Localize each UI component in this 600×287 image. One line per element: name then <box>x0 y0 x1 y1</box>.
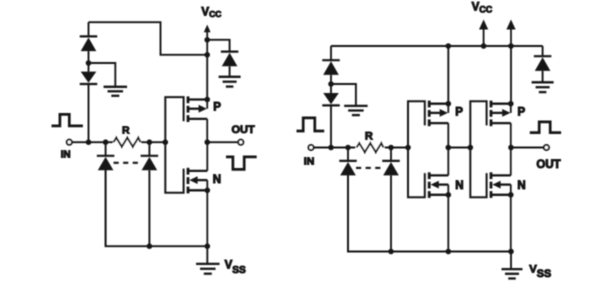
svg-text:OUT: OUT <box>536 159 560 171</box>
svg-text:R: R <box>365 131 373 143</box>
svg-text:IN: IN <box>304 155 315 167</box>
svg-text:P: P <box>518 107 526 119</box>
svg-text:N: N <box>213 174 221 186</box>
svg-text:OUT: OUT <box>232 124 256 136</box>
svg-text:SS: SS <box>537 268 551 280</box>
svg-text:VCC: VCC <box>201 7 221 19</box>
svg-text:P: P <box>455 107 463 119</box>
svg-text:N: N <box>517 180 525 192</box>
svg-text:IN: IN <box>61 149 71 160</box>
svg-text:P: P <box>213 101 221 113</box>
svg-text:R: R <box>122 125 130 137</box>
svg-text:N: N <box>455 180 463 192</box>
